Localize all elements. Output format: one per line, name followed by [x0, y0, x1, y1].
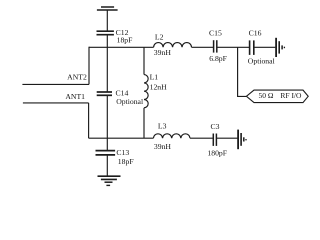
inductor L2 39nH: [154, 43, 192, 48]
capacitor C14 Optional: [97, 92, 112, 95]
wire: main vertical C13 to bottom ground: [106, 155, 108, 176]
label C13: [116, 148, 133, 166]
svg-text:6.8pF: 6.8pF: [209, 54, 227, 63]
wire: top rail left segment: [89, 46, 154, 48]
svg-text:12nH: 12nH: [150, 83, 168, 92]
svg-text:180pF: 180pF: [207, 149, 227, 158]
wire: top rail C16 to right ground: [254, 46, 275, 48]
wire: main vertical C14 to C13 (through bottom rail): [106, 95, 108, 150]
wire: ANT2 vertical up to top rail: [88, 47, 90, 85]
svg-text:C13: C13: [116, 148, 129, 157]
label C14: [116, 89, 144, 106]
wire: top rail C15 to C16 (junction node at x=237.6): [217, 46, 249, 48]
capacitor C12 18pF: [97, 31, 114, 35]
capacitor C15 6.8pF: [214, 40, 217, 52]
inductor L1 12nH (vertical) top lead: [143, 47, 145, 74]
svg-text:C15: C15: [209, 29, 222, 38]
label L2: [154, 32, 172, 57]
svg-text:C16: C16: [249, 28, 262, 37]
svg-text:39nH: 39nH: [154, 142, 172, 151]
label L1: [150, 72, 168, 91]
svg-text:L1: L1: [150, 72, 159, 81]
capacitor C13 18pF: [96, 151, 116, 155]
capacitor C16 Optional: [250, 40, 254, 55]
wire: node at C15/C16 down to RF port: [238, 47, 247, 96]
wire: ANT1 vertical down to bottom rail: [88, 103, 90, 138]
wire: bottom rail left segment: [89, 137, 154, 139]
svg-text:50 Ω: 50 Ω: [259, 91, 274, 100]
wire: bottom rail L3 to C3: [190, 137, 213, 139]
ground right of C3 (4-bar, pointing right): [238, 130, 246, 150]
inductor L1 coil: [144, 75, 148, 108]
svg-text:18pF: 18pF: [118, 157, 134, 166]
inductor L1 bottom lead: [143, 108, 145, 138]
label C16: [248, 28, 275, 65]
label C12: [116, 28, 133, 44]
svg-text:C3: C3: [211, 122, 220, 131]
wire: ANT1 horizontal lead: [23, 102, 89, 104]
wire: main vertical C12 to C14 (through top rail and ANT2 node): [106, 35, 108, 92]
ground bottom (4-bar, pointing down): [98, 176, 121, 185]
wire: bottom rail C3 to right ground: [217, 137, 238, 139]
label port 50 ohm RF I/O: [259, 91, 303, 100]
svg-text:ANT2: ANT2: [67, 72, 87, 81]
svg-text:39nH: 39nH: [154, 48, 172, 57]
svg-text:ANT1: ANT1: [65, 92, 85, 101]
capacitor C3 180pF: [213, 134, 216, 146]
svg-text:Optional: Optional: [248, 56, 275, 65]
svg-text:L3: L3: [158, 122, 167, 131]
wire: ANT2 horizontal lead: [22, 83, 89, 85]
svg-text:Optional: Optional: [116, 97, 143, 106]
svg-text:L2: L2: [155, 32, 164, 41]
svg-text:RF I/O: RF I/O: [280, 91, 302, 100]
port 50 ohm RF I/O flag outline: [246, 90, 308, 103]
label C15: [209, 29, 227, 64]
svg-text:18pF: 18pF: [117, 35, 133, 44]
inductor L3 39nH: [153, 134, 190, 138]
wire: top rail L2 to C15: [192, 46, 214, 48]
ground right of C16 (4-bar, pointing right): [276, 38, 284, 57]
wire: main vertical from top ground to C12: [106, 10, 108, 31]
label C3: [207, 122, 227, 158]
ground top (2-bar, pointing up): [97, 7, 118, 10]
label L3: [154, 122, 172, 151]
